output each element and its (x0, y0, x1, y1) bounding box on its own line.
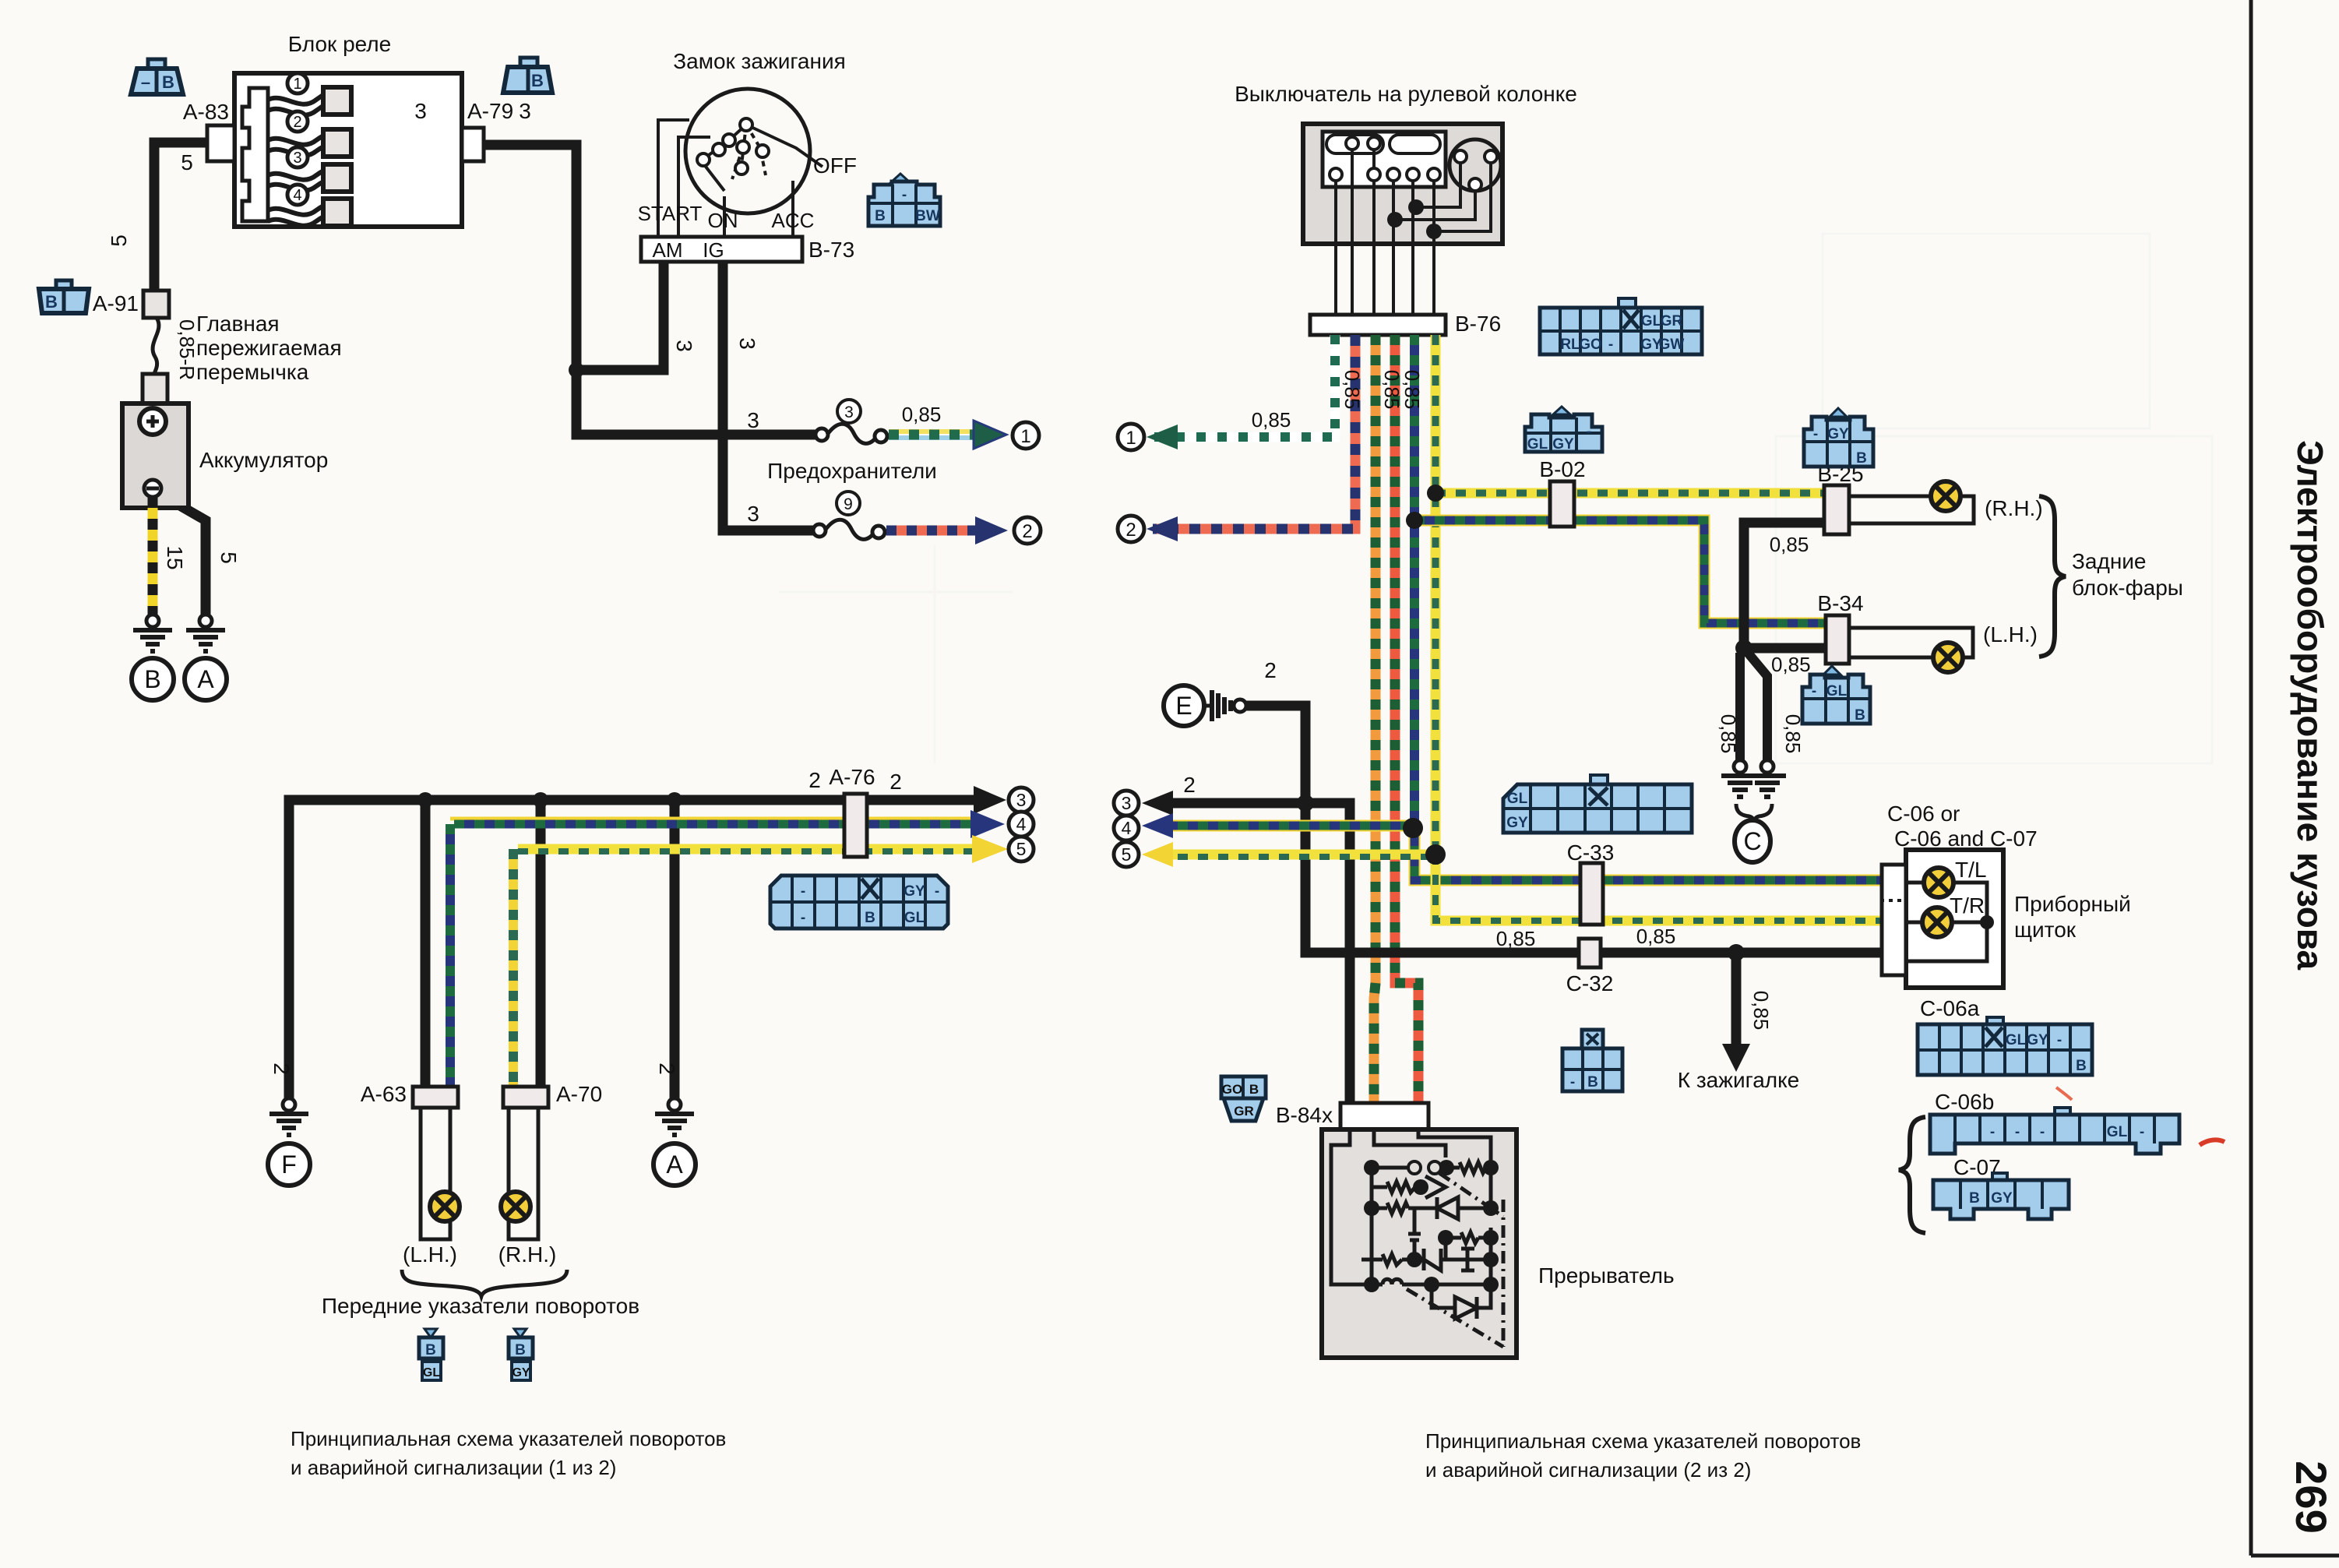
svg-text:GY: GY (1827, 426, 1849, 442)
svg-text:3: 3 (747, 408, 759, 432)
svg-text:-: - (1813, 426, 1818, 442)
svg-text:Принципиальная схема указателе: Принципиальная схема указателей поворото… (291, 1427, 726, 1450)
svg-text:Предохранители: Предохранители (767, 459, 937, 483)
svg-text:С: С (1743, 827, 1761, 855)
svg-text:В-02: В-02 (1539, 457, 1585, 481)
svg-text:А-91: А-91 (93, 291, 139, 315)
svg-text:-: - (2057, 1032, 2062, 1048)
svg-text:-: - (2140, 1124, 2144, 1140)
svg-text:Прерыватель: Прерыватель (1538, 1263, 1675, 1288)
svg-text:15: 15 (163, 545, 187, 569)
svg-text:С-06 and С-07: С-06 and С-07 (1894, 826, 2038, 851)
svg-text:Замок зажигания: Замок зажигания (673, 49, 846, 73)
svg-text:GL: GL (1641, 313, 1662, 329)
svg-text:B: B (515, 1342, 526, 1358)
svg-text:RL: RL (1560, 337, 1580, 353)
svg-text:2: 2 (1125, 520, 1136, 541)
svg-text:В: В (144, 665, 160, 693)
svg-text:щиток: щиток (2014, 918, 2077, 942)
svg-text:BW: BW (915, 208, 940, 224)
svg-text:GO: GO (1222, 1082, 1242, 1097)
svg-text:Электрооборудование кузова: Электрооборудование кузова (2290, 440, 2330, 971)
svg-text:0,85-R: 0,85-R (175, 319, 199, 380)
svg-text:А-83: А-83 (183, 100, 229, 124)
svg-text:3: 3 (672, 340, 696, 352)
svg-text:-: - (1990, 1124, 1995, 1140)
svg-text:9: 9 (844, 495, 853, 513)
svg-text:-: - (935, 883, 939, 900)
svg-text:E: E (1175, 692, 1192, 720)
svg-text:B: B (865, 910, 875, 926)
svg-text:B: B (425, 1342, 436, 1358)
svg-text:GY: GY (1552, 436, 1574, 453)
svg-text:Передние указатели поворотов: Передние указатели поворотов (322, 1294, 639, 1318)
svg-text:2: 2 (269, 1062, 294, 1075)
svg-text:2: 2 (808, 768, 821, 792)
svg-text:2: 2 (1264, 658, 1277, 682)
svg-text:IG: IG (703, 238, 724, 262)
svg-text:В-34: В-34 (1817, 591, 1863, 615)
svg-text:0,85: 0,85 (1380, 370, 1404, 410)
svg-text:пережигаемая: пережигаемая (196, 336, 342, 360)
svg-text:4: 4 (1016, 814, 1027, 834)
svg-text:-: - (2015, 1124, 2020, 1140)
svg-text:Блок реле: Блок реле (288, 32, 391, 56)
svg-text:3: 3 (293, 150, 301, 167)
svg-text:3: 3 (1016, 790, 1027, 810)
svg-text:GO: GO (1579, 337, 1602, 353)
svg-text:5: 5 (1122, 844, 1132, 865)
svg-text:Выключатель на рулевой колонке: Выключатель на рулевой колонке (1235, 82, 1577, 106)
svg-text:GL: GL (904, 910, 925, 926)
svg-text:А: А (666, 1150, 683, 1179)
svg-text:С-06b: С-06b (1935, 1090, 1994, 1114)
svg-text:START: START (638, 202, 703, 225)
svg-text:ACC: ACC (772, 209, 815, 232)
svg-text:Принципиальная схема указателе: Принципиальная схема указателей поворото… (1425, 1429, 1861, 1453)
svg-text:К зажигалке: К зажигалке (1678, 1068, 1800, 1092)
svg-text:-: - (801, 883, 805, 900)
svg-text:2: 2 (889, 770, 902, 794)
svg-text:GY: GY (2027, 1032, 2048, 1048)
svg-text:5: 5 (217, 551, 241, 564)
svg-text:0,85: 0,85 (1340, 370, 1364, 410)
svg-text:AM: AM (653, 238, 683, 262)
svg-text:GL: GL (423, 1366, 440, 1379)
svg-text:1: 1 (293, 76, 301, 93)
svg-text:B: B (2076, 1058, 2087, 1074)
svg-text:1: 1 (1020, 426, 1030, 447)
svg-text:B: B (875, 208, 886, 224)
svg-text:3: 3 (519, 99, 531, 123)
svg-text:-: - (2040, 1124, 2045, 1140)
svg-text:(L.H.): (L.H.) (1983, 622, 2038, 647)
svg-text:Аккумулятор: Аккумулятор (199, 448, 328, 472)
svg-text:5: 5 (107, 234, 131, 247)
svg-text:GL: GL (2006, 1032, 2027, 1048)
svg-text:0,85: 0,85 (1400, 370, 1424, 410)
svg-text:(R.H.): (R.H.) (498, 1242, 557, 1267)
svg-text:-: - (1608, 337, 1613, 353)
svg-text:GY: GY (512, 1366, 530, 1379)
svg-text:GY: GY (1506, 815, 1528, 831)
svg-text:GR: GR (1234, 1104, 1254, 1119)
svg-text:0,85: 0,85 (902, 403, 942, 426)
svg-text:А: А (197, 665, 214, 693)
svg-text:А-79: А-79 (467, 99, 513, 123)
svg-text:T/R: T/R (1950, 893, 1985, 918)
svg-text:GY: GY (1991, 1190, 2013, 1207)
svg-text:T/L: T/L (1955, 858, 1986, 882)
svg-text:перемычка: перемычка (196, 360, 309, 384)
svg-text:С-33: С-33 (1567, 840, 1615, 865)
svg-text:B: B (531, 71, 544, 90)
svg-text:B: B (1856, 450, 1867, 467)
svg-text:–: – (141, 72, 150, 92)
svg-text:3: 3 (735, 337, 759, 350)
svg-text:OFF: OFF (813, 153, 857, 178)
svg-text:А-63: А-63 (361, 1082, 407, 1106)
svg-text:B: B (1587, 1074, 1598, 1091)
svg-text:B: B (162, 72, 174, 92)
svg-text:GL: GL (2107, 1124, 2128, 1140)
svg-text:С-06 or: С-06 or (1887, 802, 1960, 826)
svg-text:(R.H.): (R.H.) (1985, 496, 2043, 520)
svg-text:Главная: Главная (196, 312, 280, 336)
svg-text:269: 269 (2287, 1461, 2336, 1533)
svg-text:0,85: 0,85 (1636, 925, 1676, 948)
svg-text:0,85: 0,85 (1717, 714, 1740, 754)
svg-text:Приборный: Приборный (2014, 892, 2131, 916)
svg-text:GY: GY (904, 883, 925, 900)
svg-text:B: B (1969, 1190, 1980, 1207)
svg-text:3: 3 (1122, 793, 1132, 813)
svg-text:4: 4 (293, 187, 301, 204)
svg-text:Задние: Задние (2072, 549, 2147, 573)
svg-text:B: B (45, 292, 58, 312)
svg-text:0,85: 0,85 (1749, 991, 1773, 1031)
svg-text:-: - (1587, 424, 1591, 440)
svg-text:(L.H.): (L.H.) (403, 1242, 457, 1267)
svg-text:4: 4 (1122, 818, 1132, 838)
svg-text:3: 3 (414, 99, 427, 123)
svg-text:ON: ON (708, 209, 738, 232)
svg-text:и аварийной сигнализации (2 из: и аварийной сигнализации (2 из 2) (1425, 1458, 1751, 1482)
svg-text:GW: GW (1659, 337, 1685, 353)
svg-text:С-06а: С-06а (1920, 996, 1980, 1020)
svg-text:-: - (1570, 1074, 1575, 1091)
svg-text:GL: GL (1826, 683, 1848, 699)
svg-text:и аварийной сигнализации (1 из: и аварийной сигнализации (1 из 2) (291, 1456, 616, 1479)
svg-text:0,85: 0,85 (1496, 927, 1536, 950)
svg-text:2: 2 (655, 1062, 679, 1075)
svg-text:А-70: А-70 (556, 1082, 602, 1106)
svg-text:0,85: 0,85 (1771, 653, 1811, 676)
svg-text:1: 1 (1125, 428, 1136, 449)
svg-text:-: - (1812, 683, 1816, 699)
svg-text:GL: GL (1507, 791, 1528, 807)
svg-text:С-32: С-32 (1566, 971, 1614, 995)
svg-text:2: 2 (293, 114, 301, 131)
svg-text:0,85: 0,85 (1252, 408, 1291, 432)
svg-text:блок-фары: блок-фары (2072, 576, 2183, 600)
svg-text:5: 5 (181, 150, 193, 174)
svg-text:В-84х: В-84х (1276, 1103, 1333, 1127)
svg-text:-: - (801, 910, 805, 926)
svg-text:B: B (1249, 1082, 1259, 1097)
svg-text:GR: GR (1661, 313, 1683, 329)
svg-text:-: - (902, 187, 907, 203)
svg-text:3: 3 (844, 403, 854, 421)
svg-text:B: B (1855, 707, 1865, 724)
svg-text:А-76: А-76 (829, 765, 875, 789)
svg-text:В-73: В-73 (808, 238, 854, 262)
svg-text:F: F (281, 1150, 297, 1179)
svg-text:2: 2 (1022, 521, 1032, 542)
svg-text:5: 5 (1016, 839, 1027, 859)
svg-text:2: 2 (1183, 773, 1196, 797)
svg-text:В-76: В-76 (1455, 312, 1501, 336)
svg-text:0,85: 0,85 (1770, 533, 1809, 556)
svg-text:3: 3 (747, 502, 759, 526)
svg-text:GL: GL (1527, 436, 1548, 453)
